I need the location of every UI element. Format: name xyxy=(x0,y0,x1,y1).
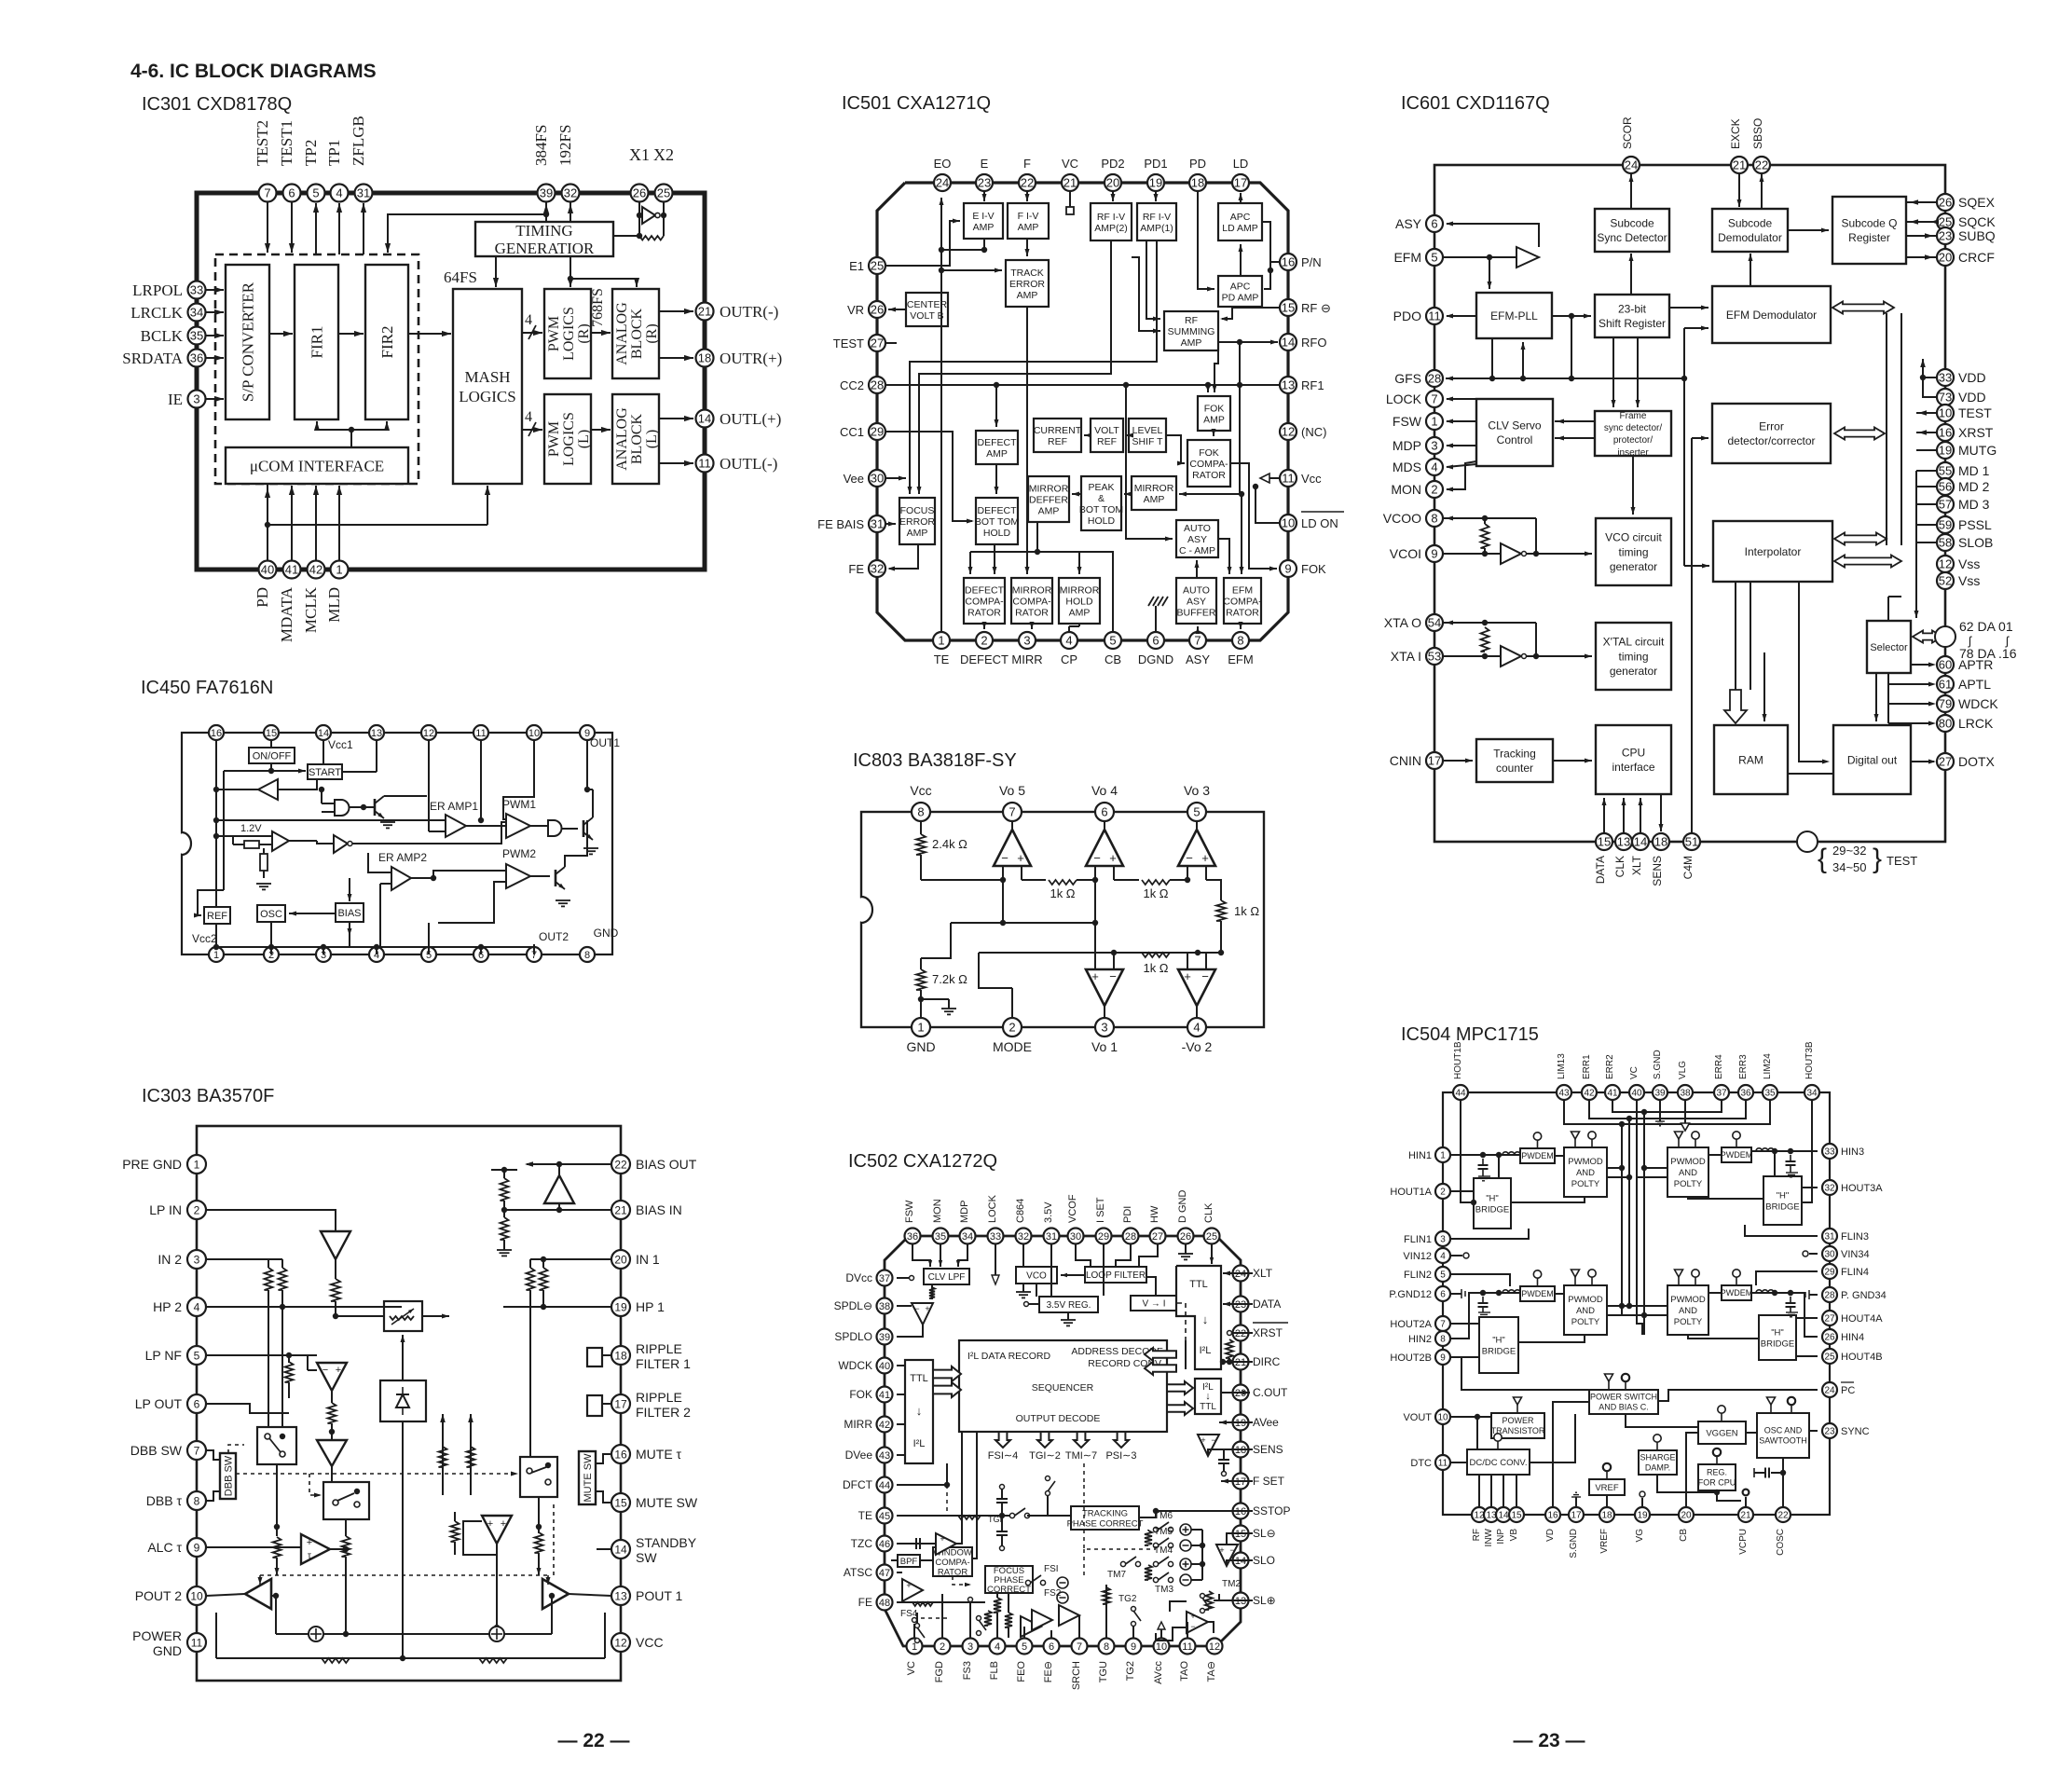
resistor 1k between A2 A3 xyxy=(1114,879,1139,881)
svg-text:13: 13 xyxy=(371,728,382,739)
pin 40 PD xyxy=(259,561,277,579)
svg-text:26: 26 xyxy=(1939,196,1952,210)
pin 25 HOUT4B xyxy=(1822,1349,1837,1364)
POUT2 triangle xyxy=(245,1579,271,1609)
dashed digital filter box xyxy=(215,254,419,484)
block MIRROR COMPARATOR xyxy=(1011,578,1052,624)
svg-text:APC: APC xyxy=(1230,212,1251,223)
pin 42 MIRR xyxy=(877,1417,893,1433)
block S/P CONVERTER xyxy=(226,265,269,419)
block FOK AMP xyxy=(1198,396,1230,431)
svg-text:22: 22 xyxy=(1755,158,1768,172)
svg-text:HOUT1B: HOUT1B xyxy=(1453,1041,1463,1079)
op-amp ER AMP2 xyxy=(391,867,411,890)
wire VIN12 stub xyxy=(1451,1255,1462,1256)
wire EXCK to Subcode Demodulator xyxy=(1738,174,1740,207)
IC501 chip outline octagon xyxy=(877,183,1288,640)
svg-text:12: 12 xyxy=(1939,557,1952,571)
ground Q1 xyxy=(380,821,395,823)
wire timing generator to crystal node xyxy=(613,235,639,237)
pin 21 DIRC xyxy=(1233,1354,1249,1370)
op-amp PWM1 xyxy=(506,814,530,838)
svg-text:AMP: AMP xyxy=(973,222,995,233)
svg-text:1: 1 xyxy=(194,1158,200,1171)
pin 20 PD2 xyxy=(1105,174,1121,191)
svg-text:GND: GND xyxy=(906,1039,935,1054)
pin 8 xyxy=(580,947,595,962)
wire VR pin to CENTER VOLT B xyxy=(888,309,906,310)
block PWDEM 3 xyxy=(1520,1286,1555,1301)
svg-text:192FS: 192FS xyxy=(556,125,574,166)
svg-text:FE BAIS: FE BAIS xyxy=(817,517,864,531)
svg-text:FOCUS: FOCUS xyxy=(900,505,935,516)
pin 22 F xyxy=(1019,174,1036,191)
svg-text:↓: ↓ xyxy=(1202,1312,1209,1326)
svg-text:44: 44 xyxy=(1455,1089,1466,1099)
block REG FOR CPU xyxy=(1698,1464,1736,1490)
wire ER AMP2 to PWM2 xyxy=(411,877,433,879)
pin 41 FOK xyxy=(877,1387,893,1403)
svg-text:9: 9 xyxy=(1284,562,1291,576)
wire sequencer bottom to TM xyxy=(1155,1511,1157,1517)
svg-text:PHASE CORRECT: PHASE CORRECT xyxy=(1067,1518,1144,1529)
svg-text:3: 3 xyxy=(1023,634,1030,648)
dashed DBB control line xyxy=(236,1473,512,1475)
wire VOUT to power transistor xyxy=(1451,1416,1491,1418)
pin 5 xyxy=(421,947,436,962)
overline PC xyxy=(1841,1381,1854,1383)
pin 1 FSW xyxy=(1426,413,1443,430)
wire HOUT1B vertical xyxy=(1461,1101,1474,1202)
svg-text:+: + xyxy=(906,1581,911,1590)
pin 4 VIN12 xyxy=(1435,1248,1450,1263)
pin 8 DBB τ xyxy=(187,1491,206,1510)
pin 8 TGU xyxy=(1099,1639,1115,1655)
svg-text:17: 17 xyxy=(1428,754,1441,768)
wire pin39 to timing generator xyxy=(545,202,547,222)
pin 6 xyxy=(473,947,488,962)
svg-text:"H": "H" xyxy=(1492,1335,1505,1345)
wire branch down from PLL wire xyxy=(1571,316,1572,378)
svg-text:28: 28 xyxy=(871,378,884,392)
pin 14 SLO xyxy=(1233,1553,1249,1569)
svg-text:PWM2: PWM2 xyxy=(502,847,536,860)
svg-text:EXCK: EXCK xyxy=(1729,118,1742,149)
op-amp A4 down Vo1 xyxy=(1086,969,1123,1006)
wire CRCF out of register xyxy=(1906,256,1937,258)
package notch xyxy=(182,832,191,855)
block CPU interface xyxy=(1596,725,1671,794)
wire MUTE SW pin xyxy=(596,1491,611,1503)
op-amp TAO triangle xyxy=(1187,1612,1208,1633)
wire MIRROR AMP to PEAK BOTTOM HOLD xyxy=(1124,493,1132,495)
svg-text:+: + xyxy=(1017,851,1024,865)
wire PD1 to RF I-V AMP1 xyxy=(1155,191,1157,201)
op-amp SL triangle xyxy=(1216,1545,1238,1566)
wire TRACK ERROR AMP down to MIRROR COMPARATOR xyxy=(1026,307,1028,574)
variable res box to mid column xyxy=(402,1335,404,1361)
ground tap xyxy=(918,996,924,1002)
pin 79 WDCK xyxy=(1937,695,1954,712)
wire EO vertical TE vertical xyxy=(940,198,942,631)
wire OSC to SYNC xyxy=(1809,1430,1818,1432)
wire HOUT2A xyxy=(1451,1323,1479,1325)
svg-text:FIR2: FIR2 xyxy=(378,326,396,359)
wire XTA O line xyxy=(1443,622,1536,624)
wire buffer output to rail xyxy=(216,789,258,790)
wire inverter to VCO circuit xyxy=(1526,553,1592,555)
wire ER AMP1 to PWM1 xyxy=(466,825,506,827)
block Digital out xyxy=(1833,725,1911,794)
svg-text:FS3: FS3 xyxy=(962,1661,973,1680)
pin 4 FLB xyxy=(990,1639,1006,1655)
wire VLG down triangle xyxy=(1684,1101,1686,1123)
svg-text:HIN2: HIN2 xyxy=(1408,1334,1432,1345)
wire PD2 to RF I-V AMP2 xyxy=(1112,191,1114,201)
pin 17 RIPPLE FILTER 2 xyxy=(611,1394,630,1413)
svg-text:+: + xyxy=(1190,1612,1195,1621)
resistor 2.4k xyxy=(920,821,922,834)
wire HOUT2B xyxy=(1451,1356,1479,1358)
wire CC1 to DEFECT BOTTOM HOLD xyxy=(885,432,972,521)
IC450 outer box xyxy=(182,733,612,954)
svg-text:XRST: XRST xyxy=(1958,425,1994,440)
op-amp ER AMP1 xyxy=(446,815,466,837)
svg-text:S/P CONVERTER: S/P CONVERTER xyxy=(240,281,257,402)
wire COSC to OSC xyxy=(1782,1458,1784,1506)
svg-text:11: 11 xyxy=(1182,1641,1192,1653)
block Interpolator xyxy=(1713,521,1832,582)
svg-text:24: 24 xyxy=(936,176,949,190)
pin 40 WDCK xyxy=(877,1358,893,1374)
svg-text:AVee: AVee xyxy=(1253,1416,1279,1429)
wire A3 plus to right 1k xyxy=(1206,880,1221,900)
svg-text:34: 34 xyxy=(1806,1089,1818,1099)
svg-text:PD2: PD2 xyxy=(1101,157,1124,171)
pin 4 -Vo 2 xyxy=(1187,1018,1206,1037)
wire PWM R to ANALOG R 768FS xyxy=(591,332,611,334)
svg-text:SBSO: SBSO xyxy=(1751,118,1764,149)
pin 6 LP OUT xyxy=(187,1394,206,1413)
svg-text:FSW: FSW xyxy=(1393,414,1422,429)
svg-text:interface: interface xyxy=(1612,761,1654,774)
svg-text:36: 36 xyxy=(907,1231,918,1243)
bus into interpolator lower xyxy=(1834,556,1901,568)
svg-text:3: 3 xyxy=(1440,1235,1446,1245)
dashed DBB to left switch xyxy=(228,1445,244,1453)
svg-text:TGI∼2: TGI∼2 xyxy=(1029,1450,1061,1462)
pin 7 HOUT2A xyxy=(1435,1316,1450,1331)
wire POUT2 feedback xyxy=(275,1596,277,1634)
pin 4 HP 2 xyxy=(187,1298,206,1316)
svg-text:PWM: PWM xyxy=(546,421,562,457)
wire AUTO ASY C-AMP to EFM COMPARATOR xyxy=(1218,539,1229,574)
svg-text:78 DA .16: 78 DA .16 xyxy=(1959,646,2017,661)
wire pin6 up xyxy=(480,947,482,954)
block E I-V AMP xyxy=(964,203,1003,239)
pin 2 DEFECT xyxy=(976,632,993,649)
svg-text:7.2k Ω: 7.2k Ω xyxy=(932,972,967,986)
svg-text:COMPA-: COMPA- xyxy=(935,1558,969,1568)
op-amp LP with +- xyxy=(317,1363,347,1391)
pin 15 DATA xyxy=(1596,833,1612,850)
transistor Q1 xyxy=(374,799,377,816)
wire shift register to subcode sync detector xyxy=(1630,254,1632,295)
pin 21 VCPU xyxy=(1738,1507,1753,1522)
svg-text:Control: Control xyxy=(1497,433,1533,446)
wire IN2 with two resistors xyxy=(206,1258,282,1260)
svg-text:7: 7 xyxy=(1077,1641,1082,1653)
svg-text:BRIDGE: BRIDGE xyxy=(1761,1339,1794,1349)
svg-text:Sync Detector: Sync Detector xyxy=(1597,231,1667,244)
summing node 1 xyxy=(309,1627,323,1641)
svg-text:−: − xyxy=(1201,969,1209,983)
pin 6 TEST1 xyxy=(283,185,301,202)
svg-text:3: 3 xyxy=(1101,1021,1107,1035)
pin 23 SUBQ xyxy=(1937,227,1954,244)
block ON/OFF xyxy=(249,748,295,763)
svg-text:VCPU: VCPU xyxy=(1738,1529,1749,1555)
svg-text:&: & xyxy=(1098,493,1105,504)
wire GFS up to EFM demod xyxy=(1683,328,1685,378)
svg-text:60: 60 xyxy=(1939,658,1952,672)
ripple filter 1 box xyxy=(587,1348,602,1366)
wire PD branch to MASH bottom xyxy=(268,524,487,526)
svg-text:FE: FE xyxy=(848,562,864,576)
pin 12 TA⊖ xyxy=(1207,1639,1223,1655)
svg-text:VCOI: VCOI xyxy=(1390,546,1421,561)
block Subcode Q Register xyxy=(1832,197,1906,264)
IC504 outer box xyxy=(1443,1092,1830,1515)
svg-text:−: − xyxy=(914,1304,919,1313)
block CLV LPF xyxy=(924,1269,969,1284)
wire BPF to window comp xyxy=(920,1559,933,1561)
svg-text:23: 23 xyxy=(1939,229,1952,243)
crystal inverter U-X1X2 xyxy=(638,202,640,236)
svg-text:22: 22 xyxy=(1021,176,1034,190)
pin 20 CB xyxy=(1679,1507,1694,1522)
svg-text:-Vo 2: -Vo 2 xyxy=(1182,1039,1213,1054)
stems above PWMOD xyxy=(1574,1139,1576,1147)
pin 16 MUTE τ xyxy=(611,1445,630,1463)
svg-text:detector/corrector: detector/corrector xyxy=(1727,434,1815,447)
pin 12 VCC xyxy=(611,1633,630,1652)
wire center vertical v4 xyxy=(1643,1112,1645,1335)
wire ZFLGB from box up xyxy=(363,203,364,254)
wire Vcc rail to op-amp minus inputs xyxy=(921,879,1003,881)
hollow arrow FSI~4 xyxy=(995,1432,1010,1448)
wire window comp to focus phase dashed xyxy=(953,1576,969,1585)
comparator 1.2V xyxy=(272,831,289,851)
wire comparator to inverter xyxy=(289,840,317,842)
block APC LD AMP xyxy=(1218,203,1262,240)
pin 44 HOUT1B xyxy=(1453,1085,1468,1100)
wire LD ON pin stub xyxy=(1256,487,1280,523)
svg-text:3: 3 xyxy=(1431,439,1437,453)
wire buffer input xyxy=(278,779,317,790)
wire LRCLK into S/P xyxy=(206,311,224,313)
svg-text:X1: X1 xyxy=(629,145,650,164)
switch FSI xyxy=(1025,1580,1030,1585)
wire VCO to REG xyxy=(1036,1284,1037,1297)
block BIAS xyxy=(336,903,364,922)
svg-text:LD AMP: LD AMP xyxy=(1222,223,1258,234)
svg-text:HOUT4A: HOUT4A xyxy=(1841,1313,1883,1325)
svg-text:REF: REF xyxy=(207,911,227,922)
svg-text:9: 9 xyxy=(1440,1353,1446,1364)
svg-text:VCO: VCO xyxy=(1026,1271,1047,1282)
buffer triangle 2 down xyxy=(317,1440,347,1466)
svg-text:2: 2 xyxy=(1009,1021,1015,1035)
svg-text:42: 42 xyxy=(1584,1089,1595,1099)
svg-text:RF I-V: RF I-V xyxy=(1143,212,1171,223)
svg-text:HW: HW xyxy=(1149,1205,1160,1223)
svg-text:Tracking: Tracking xyxy=(1493,747,1536,760)
svg-text:16: 16 xyxy=(1939,426,1952,440)
svg-text:4: 4 xyxy=(194,1300,200,1313)
svg-text:37: 37 xyxy=(1716,1089,1727,1099)
wire channel down to digital out xyxy=(1875,673,1877,721)
package notch xyxy=(861,897,872,923)
svg-text:PD AMP: PD AMP xyxy=(1222,292,1259,303)
block EFM-PLL xyxy=(1476,293,1552,338)
block WINDOW COMPARATOR xyxy=(933,1547,972,1576)
pin 37 ERR4 xyxy=(1714,1085,1729,1100)
svg-text:XLT: XLT xyxy=(1630,855,1643,875)
svg-text:4: 4 xyxy=(1431,460,1437,474)
wire RFO pin from RF SUMMING xyxy=(1218,341,1278,343)
pin 18 PD xyxy=(1189,174,1206,191)
IC502 chip outline octagon xyxy=(885,1236,1241,1646)
svg-text:(NC): (NC) xyxy=(1301,425,1326,439)
svg-text:TG2: TG2 xyxy=(1118,1594,1137,1604)
svg-text:TM7: TM7 xyxy=(1107,1570,1126,1580)
svg-text:40: 40 xyxy=(1631,1089,1642,1099)
block ANALOG BLOCK (L) xyxy=(612,394,659,484)
wire MIRR to TTL xyxy=(897,1423,905,1425)
pin 16 SSTOP xyxy=(1233,1504,1249,1519)
wire REG FOR CPU down xyxy=(1717,1490,1741,1501)
ground resistor xyxy=(256,883,271,885)
wire FE long bottom xyxy=(897,1601,985,1603)
block VCO circuit timing generator xyxy=(1596,518,1671,585)
pin 39 SPDLO xyxy=(877,1329,893,1345)
svg-text:VCC: VCC xyxy=(636,1635,664,1650)
svg-text:51: 51 xyxy=(1685,835,1698,849)
wire TE long xyxy=(897,1515,1012,1517)
pin 51 to interpolator test circle xyxy=(1797,831,1818,852)
svg-text:SYNC: SYNC xyxy=(1841,1426,1870,1437)
wire ANALOG L to OUTL(+) xyxy=(659,418,693,419)
svg-text:ANALOG: ANALOG xyxy=(614,302,630,365)
pin 4 xyxy=(369,947,384,962)
svg-text:COMPA-: COMPA- xyxy=(1223,596,1262,607)
svg-text:ERR2: ERR2 xyxy=(1605,1054,1615,1079)
wire MUTE tau pin xyxy=(596,1454,611,1463)
pin 60 APTR xyxy=(1937,656,1954,673)
wire VGGEN to OSC xyxy=(1746,1432,1757,1434)
svg-text:ERROR: ERROR xyxy=(899,516,935,528)
svg-text:−: − xyxy=(1109,969,1117,983)
svg-text:VOLT: VOLT xyxy=(1094,425,1119,436)
pin 2 xyxy=(264,947,279,962)
svg-text:384FS: 384FS xyxy=(532,125,550,166)
pin 1 HIN1 xyxy=(1435,1147,1450,1162)
svg-text:23-bit: 23-bit xyxy=(1618,302,1647,315)
pin 56 MD 2 xyxy=(1937,478,1954,495)
svg-text:SUBQ: SUBQ xyxy=(1958,228,1996,243)
wire cluster resistors xyxy=(1145,1531,1152,1545)
svg-text:LOOP FILTER: LOOP FILTER xyxy=(1086,1270,1146,1281)
svg-text:STANDBY: STANDBY xyxy=(636,1535,697,1550)
pin 18 OUTR(+) xyxy=(696,350,714,367)
svg-text:AMP(1): AMP(1) xyxy=(1140,223,1173,234)
wire PWDEM to PWMOD top row xyxy=(1555,1155,1564,1157)
svg-text:AND: AND xyxy=(1679,1168,1697,1178)
svg-text:4: 4 xyxy=(995,1641,1000,1653)
svg-text:COMPA-: COMPA- xyxy=(1012,596,1051,607)
wire BIAS top arrow xyxy=(349,887,350,901)
wire tracking out right xyxy=(1139,1511,1156,1517)
svg-text:I²L: I²L xyxy=(913,1438,926,1449)
svg-text:Vcc1: Vcc1 xyxy=(328,738,353,751)
svg-text:PDO: PDO xyxy=(1393,309,1421,323)
svg-text:PWMOD: PWMOD xyxy=(1670,1295,1706,1305)
wire LOCK pin down xyxy=(995,1244,996,1275)
pin 7 xyxy=(527,947,542,962)
svg-text:MIRROR: MIRROR xyxy=(1029,483,1069,494)
wire ERR1-ERR3 bus xyxy=(1589,1101,1746,1119)
pin 46 TZC xyxy=(877,1536,893,1552)
wire ALC to summing1 xyxy=(345,1626,347,1634)
svg-text:6: 6 xyxy=(194,1397,200,1410)
svg-text:4: 4 xyxy=(525,312,532,328)
svg-text:RFO: RFO xyxy=(1301,336,1326,350)
pin 12 Vss xyxy=(1937,556,1954,572)
svg-text:44: 44 xyxy=(879,1480,890,1491)
svg-text:7: 7 xyxy=(1194,634,1201,648)
svg-text:LOGICS: LOGICS xyxy=(561,307,577,361)
wire TEST2 into dashed box xyxy=(267,202,268,253)
svg-text:24: 24 xyxy=(1824,1386,1835,1396)
svg-text:AMP: AMP xyxy=(1203,414,1225,425)
wire P/N pin to APC PD AMP xyxy=(1264,262,1280,289)
svg-text:10: 10 xyxy=(1939,406,1952,420)
wire APC PD AMP to APC LD AMP xyxy=(1240,244,1242,276)
pin 32 FE xyxy=(869,560,885,577)
block Selector xyxy=(1867,621,1911,673)
wire SPDL- to op amp xyxy=(897,1305,912,1307)
pin 31 FLIN3 xyxy=(1822,1229,1837,1243)
svg-text:OUT2: OUT2 xyxy=(539,930,569,943)
POUT1 triangle xyxy=(542,1579,569,1609)
svg-text:FOK: FOK xyxy=(1199,447,1219,459)
pin 30 Vee xyxy=(869,470,885,487)
stems above PWMOD xyxy=(1574,1277,1576,1284)
svg-text:6: 6 xyxy=(1431,217,1437,231)
svg-text:31: 31 xyxy=(1046,1231,1057,1243)
pin 13 RF1 xyxy=(1280,377,1297,393)
pin 3 FS3 xyxy=(963,1639,979,1655)
wire RF INW INP VB to DC/DC xyxy=(1478,1475,1480,1506)
wire right op-amp down xyxy=(496,1544,498,1627)
svg-text:+: + xyxy=(1201,851,1209,865)
svg-text:LOGICS: LOGICS xyxy=(561,412,577,466)
pin 29 FLIN4 xyxy=(1822,1264,1837,1279)
svg-text:LD: LD xyxy=(1233,157,1249,171)
node EO junction xyxy=(939,247,944,253)
svg-text:VLG: VLG xyxy=(1678,1061,1688,1079)
